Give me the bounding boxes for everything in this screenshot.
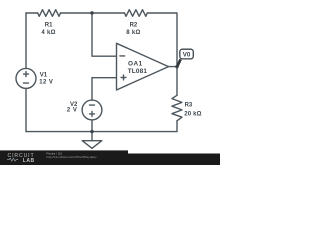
svg-text:R3: R3: [185, 103, 193, 109]
svg-text:2 V: 2 V: [67, 107, 78, 113]
svg-text:V0: V0: [183, 52, 191, 59]
svg-text:20 kΩ: 20 kΩ: [184, 112, 202, 118]
svg-text:V1: V1: [40, 73, 48, 79]
svg-text:12 V: 12 V: [39, 79, 53, 85]
svg-text:OA1: OA1: [128, 60, 143, 67]
svg-text:http://circuitlab.com/c/5be789: http://circuitlab.com/c/5be789xyqdqx: [47, 155, 97, 159]
svg-text:R2: R2: [130, 23, 138, 29]
svg-text:R1: R1: [45, 23, 53, 29]
svg-text:TL081: TL081: [128, 68, 148, 75]
svg-text:4 kΩ: 4 kΩ: [41, 30, 55, 36]
svg-text:8 kΩ: 8 kΩ: [126, 30, 140, 36]
svg-text:LAB: LAB: [23, 158, 35, 164]
